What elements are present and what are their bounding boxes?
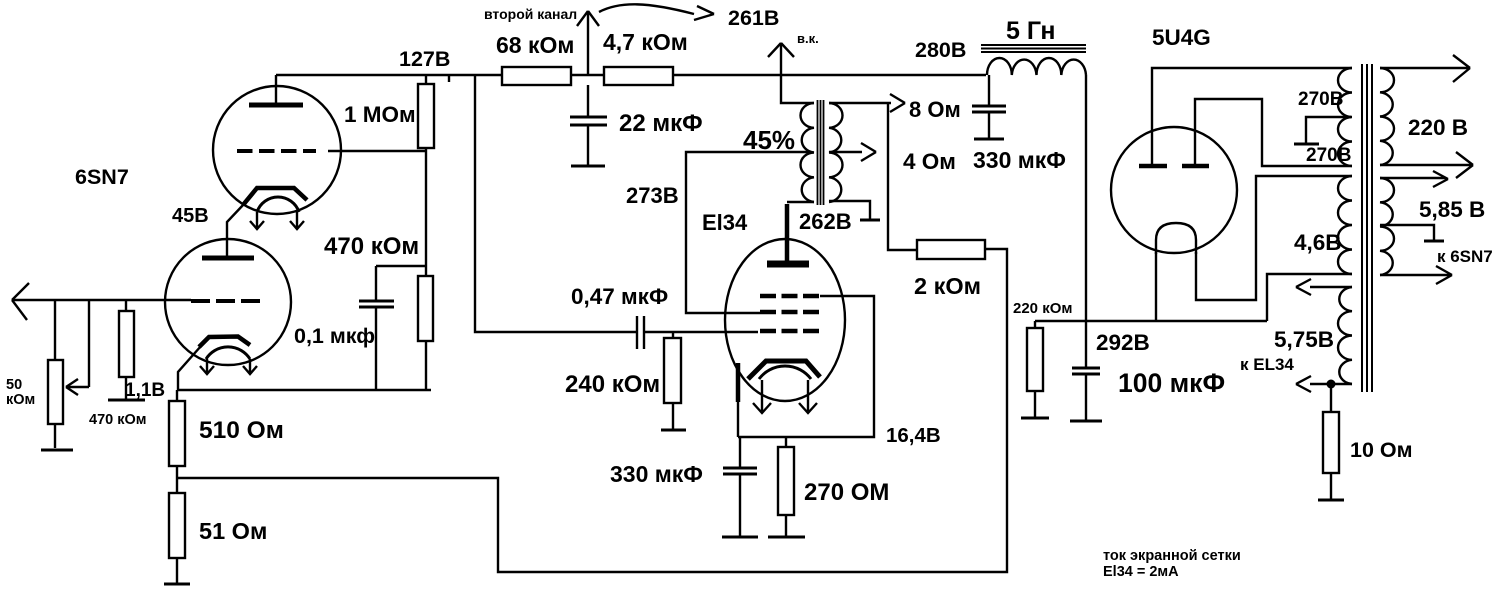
grid V1b (dashed) (191, 299, 260, 303)
capacitor 0,47 мкФ (coupling) (637, 316, 758, 349)
grid g1 EL34 (dashed) (760, 329, 820, 334)
curved arrow to 261В (599, 4, 714, 20)
svg-text:470 кОм: 470 кОм (89, 412, 146, 428)
resistor 68 кОм (502, 67, 571, 85)
wire: primary top to rail + в.к. arrow (781, 44, 814, 103)
rectifier 5U4G envelope (1111, 127, 1237, 253)
wire: 4,6В bottom to 292В node (1267, 274, 1352, 321)
svg-text:45%: 45% (743, 125, 795, 155)
ground below 100 мкФ (1070, 420, 1102, 423)
svg-text:El34: El34 (702, 210, 748, 235)
svg-text:5,85 В: 5,85 В (1419, 197, 1485, 222)
triode V1a envelope (6SN7 upper) (213, 86, 341, 214)
cathode V1a (heater hat) (243, 188, 307, 205)
HV winding 270В+270В (1338, 68, 1352, 166)
svg-text:ток экранной сетки: ток экранной сетки (1103, 548, 1241, 564)
svg-text:1,1В: 1,1В (125, 380, 165, 401)
wire+arrow: 220 В bottom (1380, 152, 1473, 178)
svg-text:кОм: кОм (6, 392, 35, 408)
choke core (981, 45, 1086, 52)
output transformer primary winding (801, 103, 814, 202)
arrowhead 4 Ом (861, 143, 876, 161)
cathode V1b (heater hat) (199, 337, 250, 348)
svg-text:261В: 261В (728, 6, 779, 30)
wire: 292В node line (1035, 320, 1267, 322)
resistor 2 кОм (feedback) (917, 240, 985, 259)
svg-text:68 кОм: 68 кОм (496, 32, 574, 58)
ground below 330 мкФ (722, 536, 758, 539)
arrow to второй канал (577, 11, 599, 75)
svg-text:280В: 280В (915, 38, 966, 62)
svg-text:16,4В: 16,4В (886, 424, 941, 447)
svg-text:к 6SN7: к 6SN7 (1437, 247, 1493, 266)
svg-text:270В: 270В (1298, 89, 1343, 110)
wire: secondary bottom to ground (829, 201, 870, 219)
wire: secondary top to 8 Ом tap (829, 102, 891, 104)
wire: V1a cathode to V1b anode (227, 204, 244, 257)
wire: primary bottom to EL34 anode (787, 201, 814, 203)
wire: filament left leg to 292В node (1155, 252, 1157, 321)
svg-text:240 кОм: 240 кОм (565, 371, 660, 398)
svg-text:4,7 кОм: 4,7 кОм (603, 29, 688, 55)
resistor 1 МОм (418, 75, 434, 276)
anode EL34 (767, 261, 809, 268)
junction dot 5,75В bottom (1327, 380, 1336, 389)
cathode EL34 (heater hat) (748, 361, 820, 379)
svg-text:51 Ом: 51 Ом (199, 518, 267, 544)
resistor 470 кОм (feedback to cathode) (418, 276, 433, 390)
svg-text:22 мкФ: 22 мкФ (619, 110, 703, 137)
winding 4,6В (1338, 176, 1352, 274)
anode lead EL34 (thick) (785, 204, 790, 261)
svg-text:0,47 мкФ: 0,47 мкФ (571, 284, 668, 309)
grid g2 EL34 (dashed) (760, 310, 820, 315)
wire: cathode node to 470к/0,1мкФ bottom (y=390) (177, 389, 431, 391)
wire+arrow: 5,75В bottom к EL34 (1296, 376, 1352, 392)
svg-text:270 ОМ: 270 ОМ (804, 479, 889, 506)
svg-text:4,6В: 4,6В (1294, 230, 1342, 255)
svg-text:второй канал: второй канал (484, 6, 577, 22)
wire: secondary mid tap 4 Ом (829, 151, 862, 153)
wire: anode 2 to HV winding bottom (1195, 99, 1352, 166)
winding 220 В (mains) (1380, 68, 1394, 165)
svg-text:262В: 262В (799, 209, 852, 234)
capacitor 22 мкФ (570, 85, 607, 165)
ground below 22 мкФ (571, 165, 605, 168)
wire: 8 Ом tap down to 2 кОм (feedback) (888, 103, 917, 250)
resistor 270 ОМ (cathode) (778, 437, 794, 536)
ground below grid-leak 470 кОм (108, 399, 145, 402)
pentode EL34 envelope (725, 239, 845, 401)
wire: 45% tap to g2 (686, 152, 810, 313)
svg-text:5,75В: 5,75В (1274, 327, 1334, 352)
resistor 51 Ом (169, 493, 185, 583)
wire: anode 1 to HV winding top (1152, 68, 1352, 166)
ground at HV center tap (1294, 143, 1319, 146)
svg-text:330 мкФ: 330 мкФ (610, 461, 703, 487)
svg-text:220 кОм: 220 кОм (1013, 300, 1072, 317)
svg-text:4 Ом: 4 Ом (903, 149, 956, 174)
capacitor 0,1 мкф (parallel 470к) (359, 266, 426, 390)
anode V1b (202, 256, 254, 261)
ground below 220 кОм (1021, 417, 1049, 420)
wire: input to grid of 6SN7 lower triode (12, 299, 191, 301)
wire: choke right down to 292В node (1085, 75, 1087, 368)
svg-text:6SN7: 6SN7 (75, 165, 129, 189)
anode 1 of 5U4G (1139, 164, 1167, 169)
svg-text:в.к.: в.к. (797, 31, 819, 46)
resistor 470 кОм (grid leak) (119, 300, 134, 399)
cathode arc EL34 (759, 366, 811, 379)
grid g3 EL34 (dashed) (760, 294, 820, 299)
triode V1b envelope (6SN7 lower) (165, 239, 291, 365)
svg-text:330 мкФ: 330 мкФ (973, 147, 1066, 173)
potentiometer 50 кОм (48, 360, 63, 448)
anode lead V1a to rail (275, 75, 277, 105)
resistor 240 кОм (grid leak EL34) (664, 332, 681, 429)
svg-text:El34 = 2мА: El34 = 2мА (1103, 564, 1179, 580)
pot wiper arrow (66, 300, 89, 395)
input arrow (signal in) (12, 283, 191, 320)
arrowhead в.к. (768, 43, 794, 57)
svg-text:к EL34: к EL34 (1240, 355, 1294, 374)
svg-text:45В: 45В (172, 205, 209, 227)
wire: V1b cathode down to 1,1В node (178, 346, 201, 390)
5,85 В center tap to ground (1380, 225, 1434, 240)
capacitor 330 мкФ (PSU, 280В node) (972, 75, 1006, 138)
svg-text:127В: 127В (399, 47, 450, 71)
ground below PSU 330 мкФ (974, 138, 1004, 141)
wire: anode V1a node down to coupling cap (475, 75, 637, 332)
cathode arrows V1b (200, 359, 257, 374)
feedback wire loop to cathode node (177, 249, 1007, 572)
svg-text:1 МОм: 1 МОм (344, 102, 416, 127)
resistor 4,7 кОм (604, 67, 673, 85)
svg-text:510 Ом: 510 Ом (199, 417, 284, 444)
HV winding center tap to ground (1306, 117, 1351, 143)
wire+arrow: 5,85 В bottom (1380, 266, 1452, 284)
wire: input down to volume pot top (54, 300, 56, 360)
anode 2 of 5U4G (1182, 164, 1209, 169)
choke 5 Гн winding (987, 58, 1086, 75)
winding 5,85 В (1380, 178, 1394, 275)
svg-text:50: 50 (6, 377, 22, 393)
grid V1a (dashed) (237, 149, 316, 153)
cathode arrows EL34 (753, 380, 817, 413)
svg-text:5 Гн: 5 Гн (1006, 17, 1056, 45)
capacitor 330 мкФ (cathode bypass) (723, 437, 757, 536)
anode V1a (249, 103, 303, 108)
ground below 240 кОм (661, 429, 686, 432)
winding 5,75В (1338, 287, 1352, 384)
cathode arc V1b (206, 347, 250, 359)
svg-text:8 Ом: 8 Ом (909, 97, 961, 122)
cathode arc V1a (257, 197, 299, 212)
B+ rail of first stage (127В) (276, 74, 986, 76)
ground below 50 кОм pot (41, 449, 73, 452)
resistor 510 Ом (169, 390, 185, 493)
svg-text:0,1 мкф: 0,1 мкф (294, 324, 375, 348)
svg-text:5U4G: 5U4G (1152, 25, 1211, 50)
wire: grid V1a to 1 МОм bottom (328, 150, 426, 152)
wire: g3 to cathode ring (16,4В box) (738, 296, 874, 437)
resistor 10 Ом (hum balance) (1323, 384, 1339, 499)
wire+arrow: 220 В top (1380, 55, 1470, 82)
svg-text:270В: 270В (1306, 145, 1351, 166)
filament 5U4G (1156, 223, 1196, 254)
svg-text:10 Ом: 10 Ом (1350, 438, 1413, 462)
svg-text:470 кОм: 470 кОм (324, 233, 419, 260)
wire+arrow: 5,75В top к EL34 (1296, 279, 1352, 295)
ground below secondary (860, 219, 880, 222)
output transformer secondary winding (829, 103, 843, 202)
power transformer core (1362, 64, 1372, 392)
tick at 127В label (448, 75, 450, 82)
ground at 5,85 В tap (1424, 240, 1444, 243)
ground below 51 Ом (164, 583, 190, 586)
ground below 10 Ом (1318, 499, 1344, 502)
capacitor 100 мкФ (1072, 368, 1100, 420)
ground below 270 ОМ (768, 536, 805, 539)
svg-text:273В: 273В (626, 183, 679, 208)
svg-text:292В: 292В (1096, 330, 1150, 355)
resistor 220 кОм (bleeder) (1027, 321, 1043, 417)
wire: filament right leg to 4,6В winding top (1196, 176, 1352, 300)
wire+arrow: 5,85 В top (1380, 171, 1448, 187)
svg-text:100 мкФ: 100 мкФ (1118, 368, 1225, 398)
arrowhead 8 Ом (890, 94, 905, 112)
svg-text:2 кОм: 2 кОм (914, 273, 981, 299)
cathode arrows V1a (250, 212, 304, 229)
output transformer core (818, 100, 824, 205)
svg-text:220 В: 220 В (1408, 115, 1468, 140)
cathode lead EL34 (736, 363, 741, 402)
